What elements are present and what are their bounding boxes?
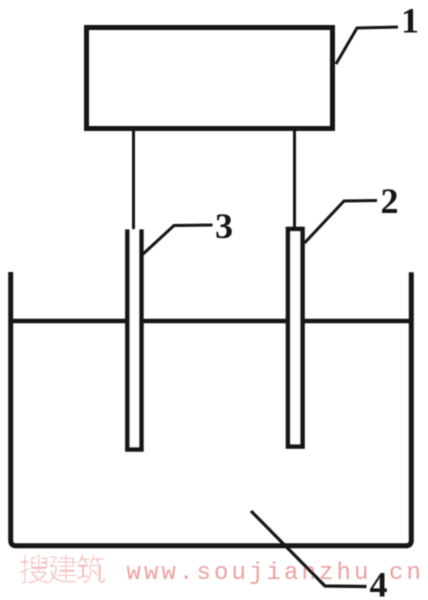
- leader line 3: [142, 225, 213, 255]
- electrode 2 (right): [288, 229, 303, 447]
- leader line 1: [336, 27, 398, 64]
- container beaker 4: [11, 272, 412, 546]
- leader line 4: [251, 511, 367, 587]
- svg-text:4: 4: [370, 565, 388, 600]
- svg-text:1: 1: [401, 1, 419, 41]
- wire right: [293, 128, 296, 228]
- watermark 搜建筑: [21, 555, 105, 584]
- svg-text:3: 3: [215, 206, 233, 246]
- electrode 3 (left, open top): [127, 229, 141, 449]
- svg-text:2: 2: [381, 181, 399, 221]
- leader line 2: [305, 201, 378, 244]
- water line: [13, 319, 409, 324]
- wire left: [132, 128, 135, 234]
- power box 1: [87, 28, 333, 129]
